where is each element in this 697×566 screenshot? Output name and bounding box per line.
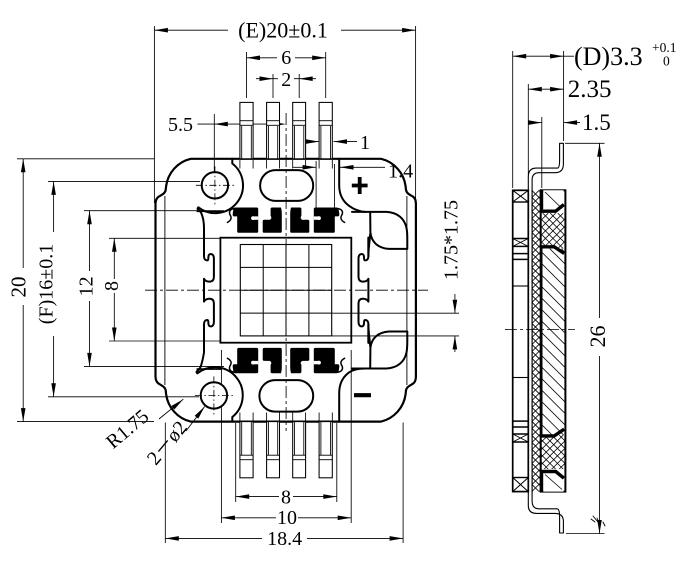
- svg-text:20: 20: [7, 277, 31, 298]
- svg-text:1.4: 1.4: [388, 161, 413, 183]
- svg-text:10: 10: [277, 507, 297, 529]
- svg-text:(F)16±0.1: (F)16±0.1: [36, 244, 58, 324]
- svg-text:1.75*1.75: 1.75*1.75: [441, 200, 463, 280]
- svg-text:6: 6: [281, 47, 291, 69]
- svg-text:26: 26: [585, 326, 610, 348]
- svg-text:12: 12: [76, 276, 98, 296]
- svg-text:2: 2: [281, 69, 291, 91]
- svg-text:8: 8: [281, 487, 291, 509]
- svg-text:5.5: 5.5: [168, 114, 193, 136]
- svg-text:1: 1: [360, 132, 370, 154]
- svg-text:8: 8: [101, 281, 123, 291]
- svg-text:(E)20±0.1: (E)20±0.1: [238, 18, 328, 43]
- svg-text:1.5: 1.5: [582, 110, 611, 135]
- svg-text:18.4: 18.4: [267, 528, 302, 550]
- svg-text:0: 0: [663, 54, 670, 69]
- svg-text:(D)3.3: (D)3.3: [574, 42, 643, 71]
- svg-text:2.35: 2.35: [568, 76, 612, 103]
